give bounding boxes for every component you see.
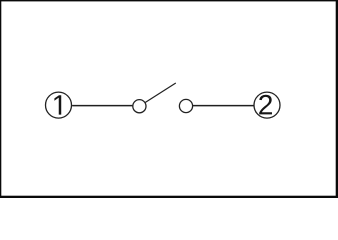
- terminal circle 2: [254, 92, 280, 118]
- wire from terminal 1 to switch pole: [72, 105, 132, 107]
- switch lever (open): [145, 83, 176, 103]
- wire from switch throw to terminal 2: [193, 105, 254, 107]
- label 1 (pin number): [54, 95, 61, 114]
- switch throw contact circle: [179, 99, 192, 112]
- terminal circle 1: [46, 92, 72, 118]
- switch pole contact circle: [133, 100, 146, 113]
- label 2 (pin number): [259, 95, 272, 115]
